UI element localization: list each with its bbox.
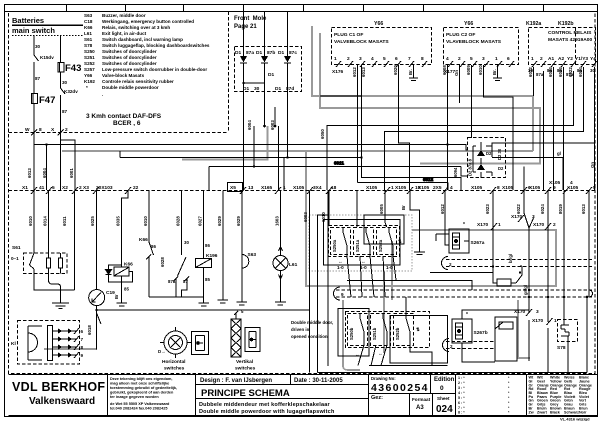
svg-text:9: 9 xyxy=(341,292,344,297)
svg-text:K32dv: K32dv xyxy=(64,89,78,94)
svg-text:6013: 6013 xyxy=(581,204,586,214)
svg-text:X105: X105 xyxy=(293,185,305,191)
svg-text:Switches of doorcylinder: Switches of doorcylinder xyxy=(102,61,157,66)
svg-text:2 : *: 2 : * xyxy=(458,381,465,385)
svg-text:K15dv: K15dv xyxy=(40,55,54,60)
svg-text:VALVEBLOCK MASATS: VALVEBLOCK MASATS xyxy=(334,39,389,45)
svg-text:S78: S78 xyxy=(84,43,93,48)
svg-text:6035: 6035 xyxy=(116,216,121,226)
svg-text:20X103: 20X103 xyxy=(96,185,113,191)
svg-text:D1: D1 xyxy=(235,50,241,56)
svg-text:6011: 6011 xyxy=(334,161,344,166)
svg-text:6003: 6003 xyxy=(303,212,308,222)
svg-text:6024: 6024 xyxy=(578,67,583,77)
svg-text:X105: X105 xyxy=(567,185,579,191)
svg-text:6025: 6025 xyxy=(90,216,95,226)
svg-text:6: 6 xyxy=(507,56,510,62)
svg-text:8: 8 xyxy=(421,56,424,62)
svg-text:X165: X165 xyxy=(261,185,273,191)
svg-text:VDL BERKHOF: VDL BERKHOF xyxy=(12,380,105,394)
svg-text:8 : *: 8 : * xyxy=(458,411,465,415)
svg-text:Y2: Y2 xyxy=(567,56,573,62)
svg-text:Gez:: Gez: xyxy=(371,395,383,401)
svg-text:Noir: Noir xyxy=(579,410,587,414)
svg-text:X170: X170 xyxy=(532,318,544,324)
svg-text:Double middle door,: Double middle door, xyxy=(291,320,333,325)
svg-text:gl: gl xyxy=(557,151,561,156)
svg-text:3: 3 xyxy=(536,309,539,315)
svg-text:Zw: Zw xyxy=(529,410,534,414)
svg-text:87a: 87a xyxy=(246,50,254,56)
svg-text:X2: X2 xyxy=(62,185,68,191)
svg-text:3: 3 xyxy=(359,56,362,62)
svg-text:S63: S63 xyxy=(248,252,257,258)
svg-text:2: 2 xyxy=(450,344,453,349)
svg-text:4: 4 xyxy=(450,185,453,191)
svg-text:Kl: Kl xyxy=(11,341,16,347)
svg-text:4: 4 xyxy=(371,56,374,62)
svg-text:87a: 87a xyxy=(168,279,176,284)
svg-text:.: . xyxy=(102,92,103,97)
svg-text:Br.: Br. xyxy=(408,69,413,75)
svg-text:X105: X105 xyxy=(395,185,407,191)
svg-text:3 Kmh contact DAF-DFS: 3 Kmh contact DAF-DFS xyxy=(86,113,162,120)
svg-text:S250a: S250a xyxy=(332,239,337,252)
svg-text:L61: L61 xyxy=(84,31,92,36)
svg-text:F47: F47 xyxy=(39,95,55,106)
svg-text:3X4: 3X4 xyxy=(313,185,322,191)
svg-text:Date : 30-11-2005: Date : 30-11-2005 xyxy=(294,378,343,384)
svg-text:6 : *: 6 : * xyxy=(458,401,465,405)
svg-text:6011: 6011 xyxy=(62,216,67,226)
svg-text:024: 024 xyxy=(436,404,453,415)
svg-text:6012: 6012 xyxy=(352,67,357,77)
svg-text:2X5: 2X5 xyxy=(433,185,442,191)
svg-text:1603: 1603 xyxy=(275,216,280,226)
svg-text:Y66: Y66 xyxy=(374,21,383,27)
svg-text:Dubbele middendeur met kofferk: Dubbele middendeur met kofferklepschakel… xyxy=(199,402,331,408)
svg-text:18: 18 xyxy=(331,185,337,191)
svg-text:A2: A2 xyxy=(558,56,564,62)
svg-text:Batteries: Batteries xyxy=(12,16,44,25)
svg-text:S257: S257 xyxy=(84,67,95,72)
svg-text:Switch dashboard, incl warning: Switch dashboard, incl warning lamp xyxy=(102,37,183,42)
svg-text:Exit light, in air-duct: Exit light, in air-duct xyxy=(102,31,147,36)
svg-text:Buzzer, middle door: Buzzer, middle door xyxy=(102,13,146,18)
svg-text:3: 3 xyxy=(482,56,485,62)
svg-text:6010: 6010 xyxy=(28,216,33,226)
svg-text:K66: K66 xyxy=(84,25,93,30)
svg-text:A3: A3 xyxy=(416,405,424,411)
svg-text:1: 1 xyxy=(554,318,557,324)
svg-text:1: 1 xyxy=(283,185,286,191)
svg-text:9: 9 xyxy=(81,353,84,358)
svg-text:Schwarz: Schwarz xyxy=(564,410,579,414)
svg-text:D2 30: D2 30 xyxy=(497,148,502,160)
svg-text:VL.4316 wijzigd: VL.4316 wijzigd xyxy=(560,417,590,421)
svg-text:S250: S250 xyxy=(84,49,95,54)
svg-text:X105: X105 xyxy=(471,185,483,191)
svg-text:6009: 6009 xyxy=(466,65,471,75)
svg-text:6029: 6029 xyxy=(236,216,241,226)
svg-text:S252b: S252b xyxy=(395,327,400,340)
svg-text:Formaat: Formaat xyxy=(412,397,431,402)
svg-text:S267b: S267b xyxy=(474,330,488,336)
svg-text:CONTROL RELAIS: CONTROL RELAIS xyxy=(548,30,592,36)
svg-text:X105: X105 xyxy=(418,185,430,191)
svg-text:2: 2 xyxy=(553,222,556,228)
svg-text:0: 0 xyxy=(440,385,444,392)
svg-text:85: 85 xyxy=(205,277,210,282)
svg-text:br/gl: br/gl xyxy=(508,254,513,263)
svg-text:86: 86 xyxy=(205,243,210,248)
svg-text:6013: 6013 xyxy=(27,168,32,178)
svg-text:BCER , 6: BCER , 6 xyxy=(113,120,141,127)
svg-text:↔: ↔ xyxy=(361,259,366,264)
svg-text:6023: 6023 xyxy=(558,67,563,77)
svg-text:6050: 6050 xyxy=(320,129,325,139)
svg-text:Relais, switching over at 3 km: Relais, switching over at 3 kmh xyxy=(102,25,170,30)
svg-text:86: 86 xyxy=(151,244,156,249)
svg-text:1: 1 xyxy=(334,56,337,62)
svg-text:87d: 87d xyxy=(286,86,294,92)
svg-text:Gn: Gn xyxy=(454,70,459,76)
svg-text:2: 2 xyxy=(449,262,452,267)
svg-text:X5: X5 xyxy=(230,185,236,191)
svg-text:S63: S63 xyxy=(84,13,93,18)
svg-text:X176: X176 xyxy=(332,69,344,75)
svg-text:↔: ↔ xyxy=(355,352,360,357)
svg-text:30: 30 xyxy=(184,240,189,245)
svg-text:X170: X170 xyxy=(514,309,526,315)
svg-text:C18: C18 xyxy=(84,19,93,24)
svg-text:2: 2 xyxy=(347,56,350,62)
svg-text:Y66: Y66 xyxy=(464,21,473,27)
svg-text:Edition:: Edition: xyxy=(434,377,456,383)
svg-text:30: 30 xyxy=(254,86,260,92)
svg-text:D2 87a 8: D2 87a 8 xyxy=(468,158,473,176)
svg-text:6: 6 xyxy=(81,329,84,334)
svg-text:87b: 87b xyxy=(267,50,275,56)
svg-text:3 : *: 3 : * xyxy=(458,386,465,390)
svg-text:S61: S61 xyxy=(84,37,93,42)
svg-text:8: 8 xyxy=(81,345,84,350)
svg-text:D1: D1 xyxy=(275,86,281,92)
svg-text:87: 87 xyxy=(62,109,68,114)
svg-text:K192a: K192a xyxy=(526,21,541,27)
svg-text:30: 30 xyxy=(35,44,41,49)
svg-text:2: 2 xyxy=(65,127,68,133)
svg-text:6022: 6022 xyxy=(568,67,573,77)
svg-text:Switches of doorcylinder: Switches of doorcylinder xyxy=(102,55,157,60)
svg-text:1-0: 1-0 xyxy=(386,265,393,270)
svg-text:X105: X105 xyxy=(549,180,561,186)
svg-text:6005: 6005 xyxy=(379,204,384,214)
svg-text:6020: 6020 xyxy=(393,65,398,75)
svg-text:A1: A1 xyxy=(548,56,554,62)
svg-text:6023: 6023 xyxy=(485,204,490,214)
svg-text:87: 87 xyxy=(183,279,188,284)
svg-text:6029: 6029 xyxy=(217,216,222,226)
svg-text:switches: switches xyxy=(164,366,185,372)
svg-text:Deze tekening blijft ons eigen: Deze tekening blijft ons eigendom, xyxy=(110,377,172,381)
svg-text:4 : *: 4 : * xyxy=(458,391,465,395)
svg-text:2: 2 xyxy=(540,56,543,62)
svg-text:K196: K196 xyxy=(206,253,218,259)
svg-text:8: 8 xyxy=(39,127,42,133)
svg-text:7: 7 xyxy=(408,56,411,62)
svg-text:D1: D1 xyxy=(243,86,249,92)
svg-text:D→: D→ xyxy=(158,349,166,354)
svg-text:D1: D1 xyxy=(256,50,262,56)
svg-text:2: 2 xyxy=(79,185,82,191)
svg-text:Werkingang, emergency button c: Werkingang, emergency button controlled xyxy=(102,19,194,24)
svg-text:switches: switches xyxy=(235,366,256,372)
svg-text:D1: D1 xyxy=(278,50,284,56)
svg-text:Switch luggageflap, blocking d: Switch luggageflap, blocking dashboardsw… xyxy=(102,43,210,48)
svg-text:S251a: S251a xyxy=(355,239,360,252)
svg-text:5: 5 xyxy=(383,56,386,62)
svg-text:Page 21: Page 21 xyxy=(234,24,257,30)
svg-text:L61: L61 xyxy=(289,262,298,268)
svg-text:K192: K192 xyxy=(84,79,95,84)
svg-text:22: 22 xyxy=(133,185,139,191)
svg-text:1: 1 xyxy=(391,185,394,191)
svg-text:K192b: K192b xyxy=(558,21,574,27)
svg-text:1-0: 1-0 xyxy=(337,265,344,270)
svg-text:VLAVEBLOCK MASATS: VLAVEBLOCK MASATS xyxy=(446,39,502,45)
svg-text:41: 41 xyxy=(39,185,45,191)
svg-text:PLUG C2 OF: PLUG C2 OF xyxy=(446,32,475,38)
svg-text:toestemming gebruikt of gedeel: toestemming gebruikt of gedeeltelijk, xyxy=(110,386,177,390)
svg-text:6022: 6022 xyxy=(516,204,521,214)
svg-text:6023: 6023 xyxy=(548,67,553,77)
svg-text:S252a: S252a xyxy=(378,239,383,252)
svg-text:Y1/Y3: Y1/Y3 xyxy=(575,56,588,62)
svg-text:6013: 6013 xyxy=(361,67,366,77)
svg-text:MASATS 42919A00: MASATS 42919A00 xyxy=(548,37,592,43)
svg-text:4: 4 xyxy=(446,56,449,62)
svg-text:8: 8 xyxy=(497,185,500,191)
svg-text:PRINCIPE SCHEMA: PRINCIPE SCHEMA xyxy=(201,388,290,399)
svg-text:S267a: S267a xyxy=(471,240,485,246)
svg-text:X1: X1 xyxy=(22,185,28,191)
svg-text:Br: Br xyxy=(401,205,406,210)
svg-text:Horizontal: Horizontal xyxy=(162,359,185,365)
svg-text:6028: 6028 xyxy=(176,216,181,226)
svg-text:main switch: main switch xyxy=(12,26,55,35)
svg-text:K66: K66 xyxy=(124,262,133,268)
svg-text:S250b: S250b xyxy=(349,327,354,340)
svg-text:8019: 8019 xyxy=(558,204,563,214)
svg-text:Zwart: Zwart xyxy=(537,410,548,414)
svg-text:6001: 6001 xyxy=(69,168,74,178)
svg-text:mag alleen met onze schrifteli: mag alleen met onze schriftelijke xyxy=(110,382,169,386)
svg-text:13: 13 xyxy=(248,185,254,191)
svg-text:Valkenswaard: Valkenswaard xyxy=(29,396,95,407)
svg-text:5: 5 xyxy=(470,56,473,62)
svg-text:ter inzage gegeven worden: ter inzage gegeven worden xyxy=(110,395,159,399)
svg-text:Y66: Y66 xyxy=(84,73,93,78)
svg-text:X105: X105 xyxy=(502,185,514,191)
svg-text:1: 1 xyxy=(498,222,501,228)
svg-text:gn/gl: gn/gl xyxy=(523,285,528,295)
svg-text:5 : *: 5 : * xyxy=(458,396,465,400)
svg-text:Front Mole: Front Mole xyxy=(234,16,267,22)
svg-text:S251b: S251b xyxy=(372,327,377,340)
svg-text:de Wet 55 5505 XP Valkenswaar: de Wet 55 5505 XP Valkenswaard xyxy=(110,402,170,406)
svg-text:6012: 6012 xyxy=(440,204,445,214)
svg-text:Black: Black xyxy=(550,410,561,414)
svg-text:Double middle powerdoor: Double middle powerdoor xyxy=(102,85,159,90)
svg-text:Sheet: Sheet xyxy=(437,396,450,401)
svg-text:gebruikt, gekopieerd of aan de: gebruikt, gekopieerd of aan derden xyxy=(110,391,174,395)
svg-text:Valve-block Masats: Valve-block Masats xyxy=(102,73,145,78)
svg-text:PLUG C1 OF: PLUG C1 OF xyxy=(334,32,363,38)
svg-text:6018: 6018 xyxy=(87,325,92,335)
svg-text:Y4: Y4 xyxy=(590,56,596,62)
svg-text:5: 5 xyxy=(52,185,55,191)
svg-text:30: 30 xyxy=(62,80,68,85)
svg-text:85: 85 xyxy=(124,287,129,292)
svg-text:Design : F. van IJsbergen: Design : F. van IJsbergen xyxy=(200,378,272,384)
svg-text:X3: X3 xyxy=(83,185,89,191)
svg-text:Vertikal: Vertikal xyxy=(236,359,253,365)
svg-text:X105: X105 xyxy=(529,185,541,191)
svg-text:43600254: 43600254 xyxy=(371,382,429,394)
svg-text:Double middle powerdoor with l: Double middle powerdoor with lugageflaps… xyxy=(199,409,335,415)
svg-text:6094: 6094 xyxy=(453,167,458,177)
svg-text:Br.: Br. xyxy=(492,69,497,75)
svg-text:1: 1 xyxy=(531,56,534,62)
svg-text:6004: 6004 xyxy=(247,120,252,130)
svg-text:87c: 87c xyxy=(289,50,297,56)
svg-text:X105: X105 xyxy=(366,185,378,191)
svg-text:0–1: 0–1 xyxy=(11,256,19,261)
svg-text:Low-pressure switch doorrubber: Low-pressure switch doorrubber in double… xyxy=(102,67,207,72)
svg-text:6: 6 xyxy=(395,56,398,62)
svg-text:S251: S251 xyxy=(84,55,95,60)
svg-text:7: 7 xyxy=(81,337,84,342)
svg-text:F43: F43 xyxy=(65,63,81,74)
svg-text:6014: 6014 xyxy=(43,216,48,226)
svg-text:K66: K66 xyxy=(139,237,148,243)
svg-text:6003: 6003 xyxy=(270,120,275,130)
svg-text:D2: D2 xyxy=(486,151,492,156)
svg-text:6027: 6027 xyxy=(198,216,203,226)
svg-text:S252: S252 xyxy=(84,61,95,66)
svg-text:S61: S61 xyxy=(12,245,21,251)
svg-text:1: 1 xyxy=(495,56,498,62)
svg-text:7 : *: 7 : * xyxy=(458,406,465,410)
svg-text:6012: 6012 xyxy=(528,67,533,77)
svg-text:Br: Br xyxy=(114,294,119,299)
svg-text:6010: 6010 xyxy=(143,216,148,226)
svg-text:tel.040 2082424 fax.040 20824: tel.040 2082424 fax.040 2082425 xyxy=(110,407,167,411)
svg-text:*: * xyxy=(466,312,468,318)
svg-text:6028: 6028 xyxy=(160,257,165,267)
svg-text:Switches of doorcylinder: Switches of doorcylinder xyxy=(102,49,157,54)
svg-text:S78: S78 xyxy=(557,345,566,351)
svg-text:*: * xyxy=(463,222,465,228)
svg-text:Controle relais sensitivity ru: Controle relais sensitivity rubber xyxy=(102,79,174,84)
svg-text:1 : *: 1 : * xyxy=(458,376,465,380)
svg-text:W: W xyxy=(25,127,30,133)
svg-text:↔: ↔ xyxy=(338,259,343,264)
svg-text:↔: ↔ xyxy=(378,351,383,356)
svg-text:6012: 6012 xyxy=(423,177,434,182)
svg-text:driven in: driven in xyxy=(291,327,310,332)
svg-text:6010: 6010 xyxy=(478,65,483,75)
svg-text:87: 87 xyxy=(35,76,41,81)
svg-text:2: 2 xyxy=(458,56,461,62)
svg-text:87a: 87a xyxy=(536,72,544,77)
svg-text:6024: 6024 xyxy=(540,204,545,214)
svg-text:6008: 6008 xyxy=(442,65,447,75)
svg-text:Drawing No:: Drawing No: xyxy=(371,376,396,381)
svg-text:D1: D1 xyxy=(268,72,274,78)
svg-text:D2: D2 xyxy=(498,166,504,171)
svg-text:X170: X170 xyxy=(477,222,489,228)
svg-text:*: * xyxy=(86,85,88,90)
svg-text:X170: X170 xyxy=(533,222,545,228)
